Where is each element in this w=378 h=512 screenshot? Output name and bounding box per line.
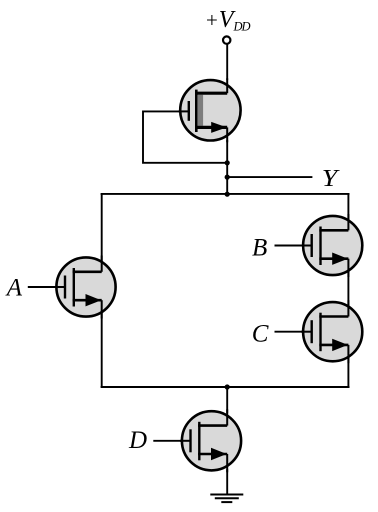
depletion-load MOSFET [178, 78, 240, 142]
transistor A [55, 256, 116, 319]
wire gate B [275, 245, 313, 247]
wire right rail [347, 194, 349, 387]
wire VDD feed [226, 45, 228, 81]
ground [210, 495, 243, 503]
svg-text:+VDD: +VDD [205, 7, 251, 34]
transistor C [301, 300, 362, 363]
wire D source to ground [226, 469, 228, 495]
VDD terminal [223, 36, 230, 43]
wire gate C [275, 331, 313, 333]
wire gate A [28, 286, 66, 288]
wire left rail [101, 194, 103, 387]
transistor D [180, 409, 241, 472]
wire D drain [226, 387, 228, 413]
wire output Y [227, 176, 312, 178]
transistor B [301, 214, 362, 277]
junction dot Y [225, 175, 230, 180]
svg-text:D: D [128, 427, 147, 454]
svg-text:B: B [252, 234, 267, 261]
svg-text:C: C [252, 320, 269, 347]
wire box bottom [101, 386, 350, 388]
svg-text:Y: Y [322, 166, 341, 192]
junction dot box bottom [225, 384, 230, 389]
junction dot gate-source [225, 160, 230, 165]
wire box top [101, 193, 350, 195]
svg-text:A: A [5, 275, 23, 302]
wire load source to box [226, 140, 228, 194]
wire load gate loop [143, 111, 227, 162]
junction dot box top [225, 192, 230, 197]
wire gate D [153, 440, 191, 442]
